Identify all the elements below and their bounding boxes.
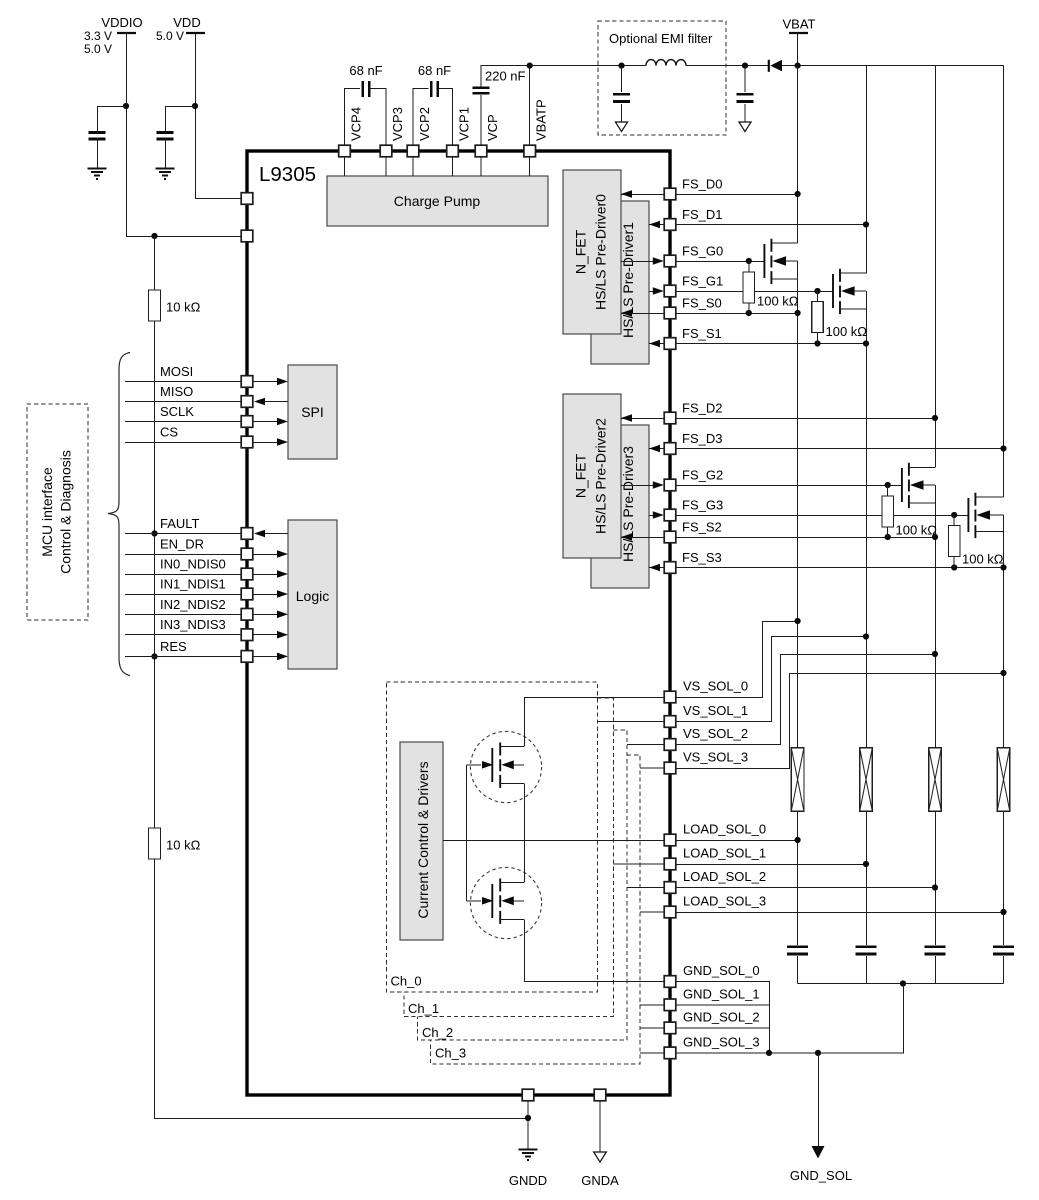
capacitor C4	[89, 132, 106, 139]
wire LS gate	[467, 900, 482, 902]
wire IN1 to Logic	[253, 594, 281, 596]
svg-text:Ch_2: Ch_2	[422, 1025, 453, 1040]
wire to C5	[166, 107, 196, 169]
wire cap ground rail	[798, 983, 1004, 985]
wire FS_D0 external	[676, 194, 798, 196]
pin IN0	[241, 568, 253, 580]
node GND_SOL collect	[766, 1050, 772, 1056]
wire FS_G0 external	[676, 261, 764, 263]
svg-text:N_FET: N_FET	[573, 453, 589, 498]
wire gate drive vertical	[466, 765, 468, 901]
wire FS_D3 internal	[649, 448, 664, 450]
svg-text:LOAD_SOL_0: LOAD_SOL_0	[683, 822, 766, 837]
Ch_1 dashed box (partial)	[404, 698, 614, 1017]
svg-text:HS/LS Pre-Driver0: HS/LS Pre-Driver0	[593, 194, 609, 310]
svg-text:Ch_1: Ch_1	[408, 1001, 439, 1016]
pin VS_SOL_1	[664, 716, 676, 728]
resistor R5 100k	[887, 485, 889, 537]
svg-text:3.3 V: 3.3 V	[84, 29, 112, 43]
wire LOAD_SOL_1 external	[676, 864, 866, 866]
pin IN3	[241, 629, 253, 641]
chip U1 L9305 outline	[247, 151, 670, 1095]
wire VS_SOL_3 external	[676, 674, 1004, 769]
ground EMI cap1 (open triangle)	[615, 122, 627, 132]
solenoid load LS2	[929, 748, 942, 811]
pin FS_G0	[664, 255, 676, 267]
svg-text:VCP2: VCP2	[417, 107, 432, 141]
wire GND_SOL_1 internal stub	[640, 1004, 664, 1006]
svg-text:GND_SOL_3: GND_SOL_3	[683, 1034, 760, 1049]
svg-text:GND_SOL_1: GND_SOL_1	[683, 986, 760, 1001]
svg-text:Charge Pump: Charge Pump	[394, 193, 481, 209]
wire VCP4-VCP3 bridge	[345, 89, 387, 146]
node VBATP junction	[527, 63, 533, 69]
wire CS	[125, 442, 241, 444]
wire MISO from SPI	[261, 401, 288, 403]
wire GNDA pin down	[599, 1101, 601, 1152]
wire bus L935 lower	[935, 485, 937, 984]
ground (VDD cap)	[156, 169, 175, 180]
wire IN1_NDIS1	[125, 594, 241, 596]
brace	[108, 353, 130, 676]
wire LOAD_SOL_0 external	[676, 840, 798, 842]
svg-text:N_FET: N_FET	[573, 229, 589, 274]
svg-text:GND_SOL_2: GND_SOL_2	[683, 1009, 760, 1024]
wire VDDIO rail	[127, 33, 242, 237]
svg-text:VDDIO: VDDIO	[101, 15, 142, 30]
pin FS_D2	[664, 412, 676, 424]
svg-text:FAULT: FAULT	[160, 516, 200, 531]
wire CS to SPI	[253, 442, 281, 444]
wire VCP4 stub to charge pump	[344, 157, 346, 176]
wire VCP3 stub	[385, 157, 387, 176]
ground GNDD (VDDIO cap)	[88, 169, 107, 180]
wire IN3 to Logic	[253, 634, 281, 636]
wire FS_S1 internal	[649, 343, 664, 345]
svg-text:HS/LS Pre-Driver1: HS/LS Pre-Driver1	[620, 222, 636, 338]
ground GNDA (open triangle)	[594, 1152, 607, 1162]
capacitor C7	[737, 94, 754, 101]
svg-text:FS_D2: FS_D2	[682, 401, 722, 416]
pin FS_D3	[664, 443, 676, 455]
pin GND_SOL_1	[664, 999, 676, 1011]
capacitor C2 68nF	[431, 81, 438, 97]
svg-text:FS_S3: FS_S3	[682, 550, 722, 565]
svg-text:IN2_NDIS2: IN2_NDIS2	[160, 597, 226, 612]
svg-text:GNDD: GNDD	[509, 1173, 547, 1188]
Logic block	[288, 520, 337, 669]
node EMI filter input	[618, 63, 624, 69]
capacitor C10	[924, 947, 945, 954]
wire Q6 source to GND_SOL_0	[525, 920, 665, 982]
wire FS_S2 external	[676, 537, 935, 539]
transistor Q3	[901, 468, 903, 502]
wire FS_S3 internal	[649, 567, 664, 569]
capacitor C5	[157, 132, 174, 139]
svg-text:LOAD_SOL_2: LOAD_SOL_2	[683, 869, 766, 884]
wire FAULT	[125, 533, 241, 535]
resistor R2 10k	[149, 828, 161, 859]
svg-text:Current Control & Drivers: Current Control & Drivers	[415, 761, 431, 918]
wire FS_G1 external	[676, 291, 833, 293]
svg-text:VBATP: VBATP	[534, 99, 549, 141]
svg-text:GND_SOL: GND_SOL	[790, 1168, 852, 1183]
wire FS_D1 internal	[649, 224, 664, 226]
wire bus L1003 upper	[1003, 66, 1005, 498]
svg-text:MISO: MISO	[160, 384, 193, 399]
pin VCP1	[447, 145, 459, 157]
svg-text:FS_G3: FS_G3	[682, 498, 723, 513]
svg-text:5.0 V: 5.0 V	[84, 42, 112, 56]
wire GND_SOL_0 external	[676, 982, 770, 1053]
wire IN2_NDIS2	[125, 613, 241, 615]
node VBAT rail junction	[795, 63, 801, 69]
pin VS_SOL_3	[664, 762, 676, 774]
wire FS_S3 external	[676, 567, 1004, 569]
svg-text:VCP: VCP	[485, 114, 500, 141]
wire FS_G2 external	[676, 485, 902, 487]
capacitor C11	[993, 947, 1014, 954]
node VDDIO cap tap	[123, 103, 129, 109]
transistor Q1	[763, 244, 765, 278]
wire FS_D1 external	[676, 224, 866, 226]
wire SCLK to SPI	[253, 421, 281, 423]
capacitor C8	[787, 947, 808, 954]
wire LOAD_SOL_2 internal stub	[627, 887, 664, 889]
node EMI filter output	[742, 63, 748, 69]
svg-text:EN_DR: EN_DR	[160, 537, 204, 552]
pin GNDA	[594, 1089, 606, 1101]
Ch_0 dashed box	[387, 682, 598, 992]
wire FS_S1 external	[676, 343, 866, 345]
svg-text:Logic: Logic	[296, 588, 329, 604]
svg-text:Ch_3: Ch_3	[435, 1046, 466, 1061]
transistor Q6 (LS) dashed circle	[470, 867, 541, 938]
wire FS_D0 internal	[621, 194, 664, 196]
VBAT supply bar	[789, 32, 808, 34]
pin EN_DR	[241, 548, 253, 560]
svg-text:SCLK: SCLK	[160, 404, 194, 419]
solenoid load LS0	[791, 748, 804, 811]
wire IN3_NDIS3	[125, 634, 241, 636]
wire EMI cap1	[621, 66, 623, 122]
pin GND_SOL_0	[664, 976, 676, 988]
pin VCP4	[339, 145, 351, 157]
wire SCLK	[125, 421, 241, 423]
wire VDD rail	[196, 33, 242, 199]
block N_FET HS/LS Pre-Driver2	[563, 394, 621, 558]
wire VBATP stub	[529, 157, 531, 176]
wire VCP1 stub	[452, 157, 454, 176]
pin VCP2	[407, 145, 419, 157]
wire IN0_NDIS0	[125, 574, 241, 576]
wire FS_G2 internal	[621, 485, 657, 487]
svg-text:VS_SOL_2: VS_SOL_2	[683, 726, 748, 741]
svg-text:FS_D0: FS_D0	[682, 177, 722, 192]
wire HS gate	[467, 764, 482, 766]
wire rail diode to corner	[782, 65, 1004, 67]
wire GND_SOL_2 external	[676, 1027, 769, 1029]
pin VS_SOL_0	[664, 691, 676, 703]
wire FS_S0 external	[676, 313, 798, 315]
svg-text:HS/LS Pre-Driver3: HS/LS Pre-Driver3	[620, 446, 636, 562]
wire FS_S2 internal	[621, 537, 664, 539]
block N_FET HS/LS Pre-Driver0	[563, 170, 621, 334]
capacitor C6	[613, 94, 630, 101]
pin IN2	[241, 609, 253, 621]
wire LOAD_SOL_1 internal stub	[614, 863, 665, 865]
pin LOAD_SOL_2	[664, 882, 676, 894]
svg-text:LOAD_SOL_1: LOAD_SOL_1	[683, 846, 766, 861]
wire VCP2-VCP1 bridge	[413, 89, 453, 146]
wire VS_SOL_2 external	[676, 655, 935, 745]
wire LOAD_SOL_2 external	[676, 887, 935, 889]
wire VS_SOL_1 external	[676, 637, 866, 722]
pin VBATP	[524, 145, 536, 157]
wire FS_G3 internal	[649, 515, 657, 517]
wire VCP to C3	[481, 66, 530, 146]
svg-text:VCP1: VCP1	[457, 107, 472, 141]
block HS/LS Pre-Driver1	[591, 201, 649, 364]
svg-text:VBAT: VBAT	[783, 17, 816, 32]
svg-text:IN1_NDIS1: IN1_NDIS1	[160, 577, 226, 592]
svg-text:VDD: VDD	[173, 15, 200, 30]
wire LOAD_SOL_3 internal stub	[640, 911, 664, 913]
wire VS_SOL_2 internal stub	[627, 744, 664, 746]
pin VDD	[241, 193, 253, 205]
svg-text:220 nF: 220 nF	[485, 69, 526, 84]
wire VCP2 stub	[412, 157, 414, 176]
svg-text:100 kΩ: 100 kΩ	[962, 552, 1004, 567]
pin FS_G1	[664, 285, 676, 297]
wire bus L1003 lower	[1003, 515, 1005, 984]
wire FS_G1 internal	[649, 291, 657, 293]
pin LOAD_SOL_1	[664, 858, 676, 870]
MCU dashed box	[27, 404, 88, 620]
wire FS_S0 internal	[621, 313, 664, 315]
svg-text:FS_G1: FS_G1	[682, 274, 723, 289]
svg-text:FS_D1: FS_D1	[682, 207, 722, 222]
wire bus L866 lower	[866, 291, 868, 984]
svg-text:SPI: SPI	[301, 404, 324, 420]
svg-text:IN0_NDIS0: IN0_NDIS0	[160, 557, 226, 572]
svg-text:RES: RES	[160, 639, 187, 654]
capacitor C3 220nF	[473, 88, 490, 94]
pin FS_G3	[664, 509, 676, 521]
pin CS	[241, 436, 253, 448]
svg-text:Optional EMI filter: Optional EMI filter	[609, 31, 713, 46]
node cap rail to GND_SOL	[900, 980, 906, 986]
wire GNDD pin down	[527, 1101, 529, 1149]
Current Control block	[400, 742, 443, 940]
svg-text:FS_D3: FS_D3	[682, 431, 722, 446]
wire RES to Logic	[253, 655, 281, 657]
wire Q5 source to load node	[524, 784, 526, 840]
wire MOSI	[125, 381, 241, 383]
wire VCP stub	[480, 157, 482, 176]
wire bus L935 upper	[935, 66, 937, 468]
VDDIO supply bar	[117, 32, 136, 34]
svg-text:FS_S2: FS_S2	[682, 520, 722, 535]
wire VBATP up	[529, 66, 531, 146]
svg-text:FS_G0: FS_G0	[682, 244, 723, 259]
wire EMI cap2	[744, 66, 746, 122]
svg-text:68 nF: 68 nF	[349, 63, 382, 78]
wire RES	[125, 655, 241, 657]
solenoid load LS1	[860, 748, 873, 811]
svg-text:MCU interface: MCU interface	[39, 467, 55, 557]
node VDD cap tap	[192, 103, 198, 109]
wire pullup rail lower to GNDD	[155, 859, 529, 1119]
transistor Q5 (HS) dashed circle	[470, 731, 541, 802]
wire FS_G3 external	[676, 515, 968, 517]
wire FS_G0 internal	[621, 261, 657, 263]
svg-text:GNDA: GNDA	[581, 1173, 619, 1188]
transistor Q4	[967, 498, 969, 532]
wire bus L798 upper	[797, 66, 799, 243]
svg-text:10 kΩ: 10 kΩ	[166, 300, 201, 315]
svg-text:L9305: L9305	[259, 163, 316, 186]
wire FS_D3 external	[676, 448, 1004, 450]
pin MOSI	[241, 376, 253, 388]
pin FAULT	[241, 528, 253, 540]
wire GND_SOL_3 external	[676, 984, 904, 1053]
wire pullup rail upper	[154, 236, 156, 290]
pin LOAD_SOL_3	[664, 906, 676, 918]
svg-text:100 kΩ: 100 kΩ	[826, 324, 868, 339]
svg-text:MOSI: MOSI	[160, 364, 193, 379]
ground GNDD earth	[519, 1150, 538, 1161]
block HS/LS Pre-Driver3	[591, 425, 649, 588]
transistor Q5	[491, 748, 493, 782]
resistor R4 100k	[817, 291, 819, 344]
capacitor C1 68nF	[363, 81, 370, 97]
wire top rail left	[530, 65, 646, 67]
svg-text:5.0 V: 5.0 V	[156, 29, 184, 43]
wire LOAD_SOL_0 internal	[443, 840, 664, 842]
Ch_2 dashed box (partial)	[418, 730, 628, 1040]
pin LOAD_SOL_0	[664, 834, 676, 846]
Ch_3 dashed box (partial)	[431, 755, 641, 1064]
solenoid load LS3	[997, 748, 1010, 811]
svg-text:100 kΩ: 100 kΩ	[896, 523, 938, 538]
wire GND_SOL_1 external	[676, 1004, 769, 1006]
resistor R6 100k	[953, 515, 955, 568]
VDD supply bar	[186, 32, 205, 34]
pin RES	[241, 651, 253, 663]
wire VBAT drop	[797, 33, 799, 66]
node RES pullup	[151, 653, 157, 659]
svg-text:100 kΩ: 100 kΩ	[757, 294, 799, 309]
wire GND_SOL arrow	[818, 1053, 820, 1147]
wire GND_SOL_2 internal stub	[640, 1027, 664, 1029]
pin FS_S2	[664, 531, 676, 543]
svg-text:HS/LS Pre-Driver2: HS/LS Pre-Driver2	[593, 418, 609, 534]
wire MISO	[125, 401, 241, 403]
svg-text:VCP4: VCP4	[349, 107, 364, 141]
wire to C4	[98, 107, 127, 169]
wire rail inductor to diode	[686, 65, 769, 67]
pin FS_S1	[664, 338, 676, 350]
svg-text:FS_S0: FS_S0	[682, 296, 722, 311]
wire bus L798 lower	[797, 261, 799, 984]
svg-text:68 nF: 68 nF	[418, 63, 451, 78]
pin FS_S3	[664, 562, 676, 574]
pin VDDIO	[241, 230, 253, 242]
ground EMI cap2 (open triangle)	[739, 122, 751, 132]
wire bus L866 upper	[866, 66, 868, 274]
node pullup rail tap	[151, 233, 157, 239]
pin GND_SOL_3	[664, 1047, 676, 1059]
transistor Q6	[491, 884, 493, 918]
svg-text:FS_S1: FS_S1	[682, 326, 722, 341]
pin IN1	[241, 588, 253, 600]
svg-text:VS_SOL_0: VS_SOL_0	[683, 679, 748, 694]
pin GNDD	[522, 1089, 534, 1101]
diode D1	[768, 60, 770, 72]
node GND_SOL arrow tap	[815, 1050, 821, 1056]
svg-text:10 kΩ: 10 kΩ	[166, 838, 201, 853]
wire EN_DR	[125, 554, 241, 556]
pin VCP3	[380, 145, 392, 157]
svg-text:FS_G2: FS_G2	[682, 468, 723, 483]
node FAULT pullup	[151, 530, 157, 536]
pin VCP	[475, 145, 487, 157]
wire FAULT from Logic	[261, 533, 288, 535]
svg-text:Ch_0: Ch_0	[391, 974, 422, 989]
pin MISO	[241, 396, 253, 408]
pin FS_G2	[664, 479, 676, 491]
svg-text:VS_SOL_3: VS_SOL_3	[683, 750, 748, 765]
inductor L1	[646, 60, 686, 66]
EMI dashed box	[598, 21, 726, 135]
svg-text:Control & Diagnosis: Control & Diagnosis	[58, 450, 74, 574]
wire pullup rail middle	[154, 321, 156, 828]
resistor R3 100k	[748, 261, 750, 313]
wire IN2 to Logic	[253, 613, 281, 615]
node GNDD rail junction	[525, 1115, 531, 1121]
pin FS_D0	[664, 188, 676, 200]
charge pump block	[327, 176, 548, 226]
resistor R1 10k	[149, 290, 161, 321]
svg-text:IN3_NDIS3: IN3_NDIS3	[160, 617, 226, 632]
wire FS_D2 internal	[621, 418, 664, 420]
wire VS_SOL_1 internal stub	[598, 721, 664, 723]
svg-text:GND_SOL_0: GND_SOL_0	[683, 963, 760, 978]
wire Q6 drain to load node	[524, 840, 526, 883]
wire Q5 drain to VS_SOL_0	[525, 698, 665, 747]
wire GND_SOL_3 internal stub	[640, 1052, 664, 1054]
transistor Q2	[832, 274, 834, 308]
wire EN_DR to Logic	[253, 554, 281, 556]
svg-text:VS_SOL_1: VS_SOL_1	[683, 703, 748, 718]
pin GND_SOL_2	[664, 1022, 676, 1034]
wire VS_SOL_3 internal stub	[640, 767, 664, 769]
svg-text:VCP3: VCP3	[390, 107, 405, 141]
wire MOSI to SPI	[253, 381, 281, 383]
wire LOAD_SOL_3 external	[676, 912, 1004, 914]
pin FS_S0	[664, 307, 676, 319]
wire IN0 to Logic	[253, 574, 281, 576]
SPI block	[288, 365, 337, 459]
pin VS_SOL_2	[664, 739, 676, 751]
svg-text:LOAD_SOL_3: LOAD_SOL_3	[683, 894, 766, 909]
pin FS_D1	[664, 219, 676, 231]
svg-text:CS: CS	[160, 425, 178, 440]
wire FS_D2 external	[676, 418, 935, 420]
pin SCLK	[241, 416, 253, 428]
capacitor C9	[855, 947, 876, 954]
